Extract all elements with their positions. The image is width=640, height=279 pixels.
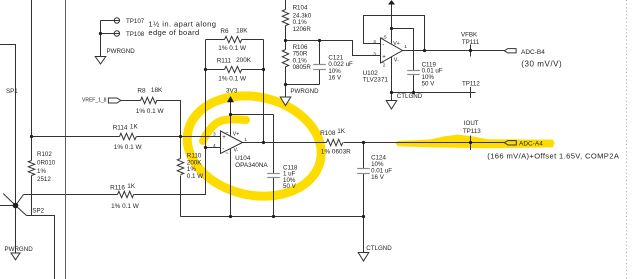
node R111 left junction (204, 68, 207, 71)
node U104 output junction (262, 141, 265, 144)
wire R104 branch (285, 0, 287, 41)
resistor R8 18K (141, 97, 157, 103)
node TP108 junction (99, 32, 102, 35)
wire lower current path (27, 216, 55, 279)
capacitor C124 plates (357, 169, 370, 174)
wire R6 top feedback (206, 39, 264, 41)
svg-text:1% 0.1 W: 1% 0.1 W (218, 45, 247, 52)
node U102 supply/C119 junction (390, 27, 393, 30)
svg-text:OPA340NA: OPA340NA (235, 162, 268, 169)
power arrow above U102 (388, 0, 395, 5)
svg-text:1K: 1K (337, 128, 346, 135)
wire TP108 lead (101, 33, 115, 35)
svg-text:1% 0603R: 1% 0603R (321, 149, 351, 156)
svg-text:(166 mV/A)+Offset 1.65V, COMP2: (166 mV/A)+Offset 1.65V, COMP2A (487, 151, 620, 160)
wire 3V3 to C118 (231, 114, 274, 116)
svg-text:TP111: TP111 (462, 39, 480, 46)
svg-text:4: 4 (373, 39, 376, 45)
wire TP107 lead (101, 20, 115, 22)
resistor R102 0R010 vertical (28, 161, 34, 176)
svg-text:CTLGND: CTLGND (366, 245, 392, 252)
svg-text:V-: V- (234, 147, 239, 153)
svg-text:PWRGND: PWRGND (107, 48, 136, 55)
svg-text:TP107: TP107 (126, 18, 145, 25)
svg-text:~: ~ (225, 151, 228, 157)
svg-text:1% 0.1 W: 1% 0.1 W (111, 203, 140, 210)
node 3V3/C118 junction (229, 113, 232, 116)
tag VREF_1_8 (108, 98, 120, 103)
svg-text:16 V: 16 V (371, 174, 385, 181)
svg-text:TP112: TP112 (462, 81, 480, 88)
wire R114 input net (32, 136, 221, 138)
op-amp U104 OPA340NA (221, 130, 243, 157)
wire CTLGND lead U102 (391, 93, 393, 101)
svg-text:-: - (382, 42, 384, 48)
wire 3V3 to U104 pin5 (230, 102, 232, 137)
wire U102 pin2 to ground (391, 57, 393, 93)
svg-text:1K: 1K (127, 183, 136, 190)
svg-text:(30 mV/V): (30 mV/V) (521, 59, 562, 68)
node R111 right junction (262, 68, 265, 71)
wire R110 to ground (180, 137, 182, 217)
svg-text:5: 5 (384, 34, 387, 40)
wire R111 feedback (206, 69, 264, 71)
wire SP2 diagonal upper-right (16, 195, 24, 206)
tag ADC-A4 (504, 141, 516, 145)
node C119 ground junction (412, 91, 415, 94)
resistor R108 1K (327, 139, 343, 145)
node C124 top junction (362, 141, 365, 144)
resistor R106 750R vertical (282, 50, 288, 67)
yellow highlighter band over IOUT wire (395, 135, 555, 149)
capacitor C118 leads (273, 115, 275, 217)
node U104 pin4 junction (204, 146, 207, 149)
wire feedback box right edge (263, 40, 265, 143)
svg-text:IOUT: IOUT (464, 120, 479, 127)
svg-text:R111: R111 (217, 58, 232, 65)
wire feedback box left edge (205, 40, 207, 148)
wire SP2 diagonal lower-right (16, 206, 27, 216)
node U104 pin2 ground junction (229, 215, 232, 218)
svg-text:R104: R104 (293, 5, 308, 12)
wire R104/R106 node to U102 (286, 41, 381, 56)
op-amp U102 TLV2371 (381, 36, 403, 66)
svg-text:1206R: 1206R (293, 26, 312, 33)
wire U104 output / IOUT net (243, 142, 505, 144)
svg-text:-: - (222, 146, 224, 152)
svg-text:3V3: 3V3 (226, 88, 238, 95)
wire supply to C119 (392, 29, 414, 93)
svg-text:PWRGND: PWRGND (290, 88, 319, 95)
svg-text:4: 4 (213, 143, 216, 149)
wire test point ground drop (100, 21, 102, 57)
wire SP2 left stub (0, 205, 16, 207)
node U104 pin3 junction (179, 135, 182, 138)
wire U104 pin4 input (206, 147, 221, 149)
svg-text:edge of board: edge of board (148, 28, 199, 37)
node U102 ground junction (390, 91, 393, 94)
capacitor C119 plates (407, 71, 420, 75)
capacitor C121 leads (319, 41, 321, 85)
node C124 ground junction (362, 215, 365, 218)
wire top-left corner into SP2 net (0, 45, 16, 206)
svg-text:R8: R8 (137, 88, 146, 95)
wire U104 pin2 to ground (230, 148, 232, 217)
capacitor C121 plates (313, 65, 326, 70)
wire PWRGND lead under R106 (285, 85, 287, 98)
svg-text:200K: 200K (236, 57, 252, 64)
test point TP113 tick (470, 136, 472, 151)
ground PWRGND bottom left (11, 253, 20, 260)
svg-text:3: 3 (213, 132, 216, 138)
wire U102 feedback loop (364, 16, 425, 51)
svg-text:TP113: TP113 (463, 128, 481, 135)
svg-text:VFBK: VFBK (461, 32, 478, 39)
svg-text:SP2: SP2 (32, 208, 44, 215)
capacitor C118 plates (267, 174, 280, 178)
ground PWRGND under test points (95, 57, 106, 65)
svg-text:1% 0.1 W: 1% 0.1 W (114, 144, 143, 151)
svg-text:V-: V- (394, 58, 399, 64)
wire CTLGND bus at U102 (392, 92, 476, 94)
svg-text:1K: 1K (130, 123, 139, 130)
node C118 ground junction (272, 215, 275, 218)
node SP2 solder point (13, 203, 19, 209)
ground CTLGND under U102 (386, 101, 397, 110)
svg-text:R102: R102 (37, 151, 52, 158)
wire VREF/R8 branch (121, 101, 181, 137)
resistor R6 18K (225, 36, 242, 42)
svg-text:PWRGND: PWRGND (5, 246, 34, 253)
svg-text:0.1 W: 0.1 W (187, 173, 203, 180)
resistor R110 200K vertical (177, 159, 183, 175)
ground CTLGND bottom center (358, 253, 369, 262)
wire SP2 to PWRGND lead (15, 206, 17, 254)
svg-text:SP1: SP1 (6, 88, 18, 95)
node R114/R102 junction (30, 135, 33, 138)
svg-text:~: ~ (225, 130, 228, 136)
wire R106 leads (285, 41, 287, 85)
tag ADC-B4 (504, 49, 516, 53)
node R104/R106 junction (284, 39, 287, 42)
node TP111 junction (469, 49, 472, 52)
test point TP111 tick (470, 45, 472, 57)
svg-text:50 V: 50 V (283, 183, 297, 190)
wire U102 output to ADC-B4 (402, 50, 505, 52)
wire R102 branch vertical (31, 0, 33, 216)
svg-text:2512: 2512 (37, 176, 51, 183)
svg-text:TP108: TP108 (126, 31, 145, 38)
node C121 top junction (318, 39, 321, 42)
resistor R111 200K (225, 66, 242, 72)
svg-text:1% 0.1 W: 1% 0.1 W (136, 108, 165, 115)
svg-text:1: 1 (244, 137, 247, 143)
svg-text:0805R: 0805R (293, 64, 312, 71)
node U102 output junction (423, 49, 426, 52)
svg-text:2: 2 (383, 63, 386, 69)
node TP113 junction (469, 141, 472, 144)
wire ground node under R106 (286, 84, 320, 86)
wire U102 pin5 supply (391, 4, 393, 43)
capacitor C124 leads (363, 143, 365, 217)
node R106 ground junction (284, 83, 287, 86)
power 3V3 arrow (227, 96, 234, 102)
svg-text:18K: 18K (236, 28, 248, 35)
svg-text:VREF_1_8: VREF_1_8 (82, 98, 107, 104)
test point TP108 circle (114, 31, 119, 36)
wire long vertical left (65, 0, 67, 279)
resistor R114 1K (120, 133, 137, 139)
svg-text:R108: R108 (320, 130, 336, 137)
test point TP107 circle (114, 18, 119, 23)
resistor R104 24.3k0 vertical (282, 10, 288, 26)
test point TP112 tick (470, 87, 472, 98)
svg-text:18K: 18K (151, 87, 163, 94)
svg-text:R114: R114 (113, 125, 128, 132)
svg-text:ADC-B4: ADC-B4 (521, 49, 545, 56)
svg-text:1%: 1% (37, 168, 46, 175)
wire R116 sense net (24, 148, 206, 195)
svg-text:3: 3 (373, 51, 376, 57)
svg-text:V+: V+ (393, 41, 400, 47)
wire bottom ground bus (181, 216, 364, 218)
wire SP2 diagonal upper-left (3, 194, 15, 206)
dotted page border right (626, 0, 628, 279)
resistor R116 1K (118, 191, 134, 197)
svg-text:R6: R6 (220, 28, 229, 35)
yellow highlighter loop around U104 (177, 83, 331, 209)
svg-text:1% 0.1 W: 1% 0.1 W (218, 75, 247, 82)
svg-text:1: 1 (404, 44, 407, 50)
ground PWRGND under R106 (280, 97, 291, 106)
svg-text:TLV2371: TLV2371 (363, 77, 389, 84)
svg-text:CTLGND: CTLGND (397, 93, 423, 100)
svg-text:ADC-A4: ADC-A4 (519, 141, 543, 148)
svg-text:V+: V+ (233, 131, 240, 137)
svg-text:50 V: 50 V (422, 81, 436, 88)
svg-text:16 V: 16 V (328, 75, 342, 82)
wire CTLGND bottom lead (363, 217, 365, 253)
svg-text:R116: R116 (110, 185, 125, 192)
svg-text:0R010: 0R010 (37, 160, 56, 167)
